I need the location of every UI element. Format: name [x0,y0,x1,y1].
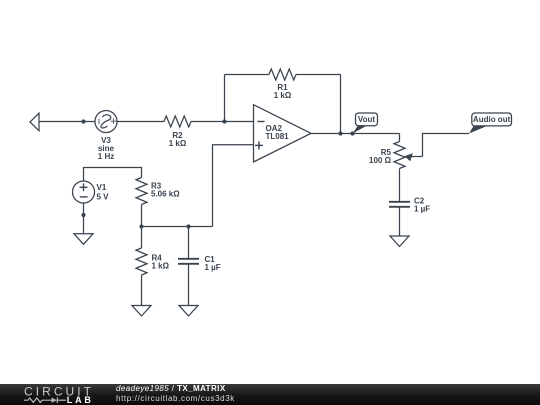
wire R5 to C2 [399,169,401,202]
svg-text:http://circuitlab.com/cus3d3k: http://circuitlab.com/cus3d3k [116,394,235,403]
wire output elbow down to R5 [399,134,401,142]
svg-text:LAB: LAB [67,395,94,405]
input terminal arrow [30,113,39,131]
resistor R2 [164,116,191,127]
wire V3 to R2 [117,121,164,123]
svg-text:V1: V1 [97,183,107,192]
wire C1 top [188,227,190,259]
ground for C2 [390,236,409,247]
svg-text:5.06 kΩ: 5.06 kΩ [151,190,180,199]
wire wiper to Audio out [423,134,470,157]
ground for V1 [74,234,93,245]
net flag Vout [353,113,378,134]
wire feedback top left segment [225,74,270,76]
logo resistor-diode glyph [24,397,66,403]
capacitor C2 [389,202,410,207]
wire C1 to ground [188,265,190,306]
svg-text:1 Hz: 1 Hz [98,152,114,161]
wire node B to R4 [141,227,143,249]
junction dot input node [81,119,85,123]
svg-text:1 µF: 1 µF [205,263,221,272]
wire V1 top to R3 [84,168,142,182]
svg-text:5 V: 5 V [97,193,110,202]
footer bar [0,384,540,405]
node B junction dot [139,224,143,228]
junction dot output node [338,131,342,135]
wire V1 bottom [83,203,85,234]
svg-text:Audio out: Audio out [473,115,511,124]
net flag Audio out [469,113,512,134]
svg-text:100 Ω: 100 Ω [369,156,392,165]
voltage source V1 [73,181,95,203]
svg-text:1 kΩ: 1 kΩ [274,91,292,100]
voltage source V3 (sine) [95,111,117,133]
wire R2 to node A [191,121,254,123]
ground for C1 [179,306,198,317]
wire R3 to node B [141,205,143,227]
junction dot Vout attach [350,131,354,135]
wire feedback left vertical [224,75,226,122]
resistor R3 [136,178,147,205]
ground for R4 [132,306,151,317]
wire node B to riser [142,226,213,228]
resistor R4 [136,248,147,275]
svg-text:1 kΩ: 1 kΩ [169,139,187,148]
wire feedback top right segment [296,74,341,76]
wire feedback right vertical [340,75,342,134]
wire C2 to ground [399,208,401,237]
junction dot V1 bottom [81,213,85,217]
resistor R1 [269,69,296,80]
capacitor C1 [178,259,199,264]
wire R4 to ground [141,275,143,306]
svg-text:TL081: TL081 [266,132,290,141]
node A junction dot [222,119,226,123]
svg-text:1 kΩ: 1 kΩ [152,262,170,271]
svg-text:1 µF: 1 µF [414,205,430,214]
wire input to V3 [39,121,95,123]
svg-text:Vout: Vout [358,115,376,124]
junction dot C1 node [186,224,190,228]
wire riser to op-amp non-inverting input [213,145,254,227]
resistor R5 potentiometer [394,142,423,169]
wire op-amp output [311,133,400,135]
op-amp OA2 [254,105,312,162]
svg-text:deadeye1985 / TX_MATRIX: deadeye1985 / TX_MATRIX [116,384,226,393]
